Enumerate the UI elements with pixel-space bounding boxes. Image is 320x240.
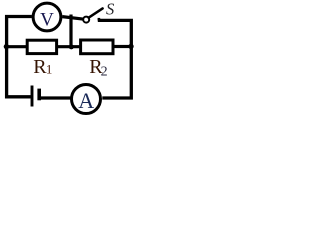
switch S lever <box>89 8 103 17</box>
voltmeter V circle <box>33 3 61 31</box>
wire: top-left + left side + bottom-left loop <box>7 17 32 97</box>
resistor R2 box <box>81 40 113 54</box>
svg-text:2: 2 <box>101 65 108 80</box>
svg-text:1: 1 <box>46 62 53 77</box>
node: junction dot right side <box>128 44 133 49</box>
node: junction dot left side <box>4 44 9 49</box>
battery cell long plate <box>31 86 34 107</box>
svg-text:A: A <box>78 88 94 113</box>
background <box>0 0 136 117</box>
battery cell short plate <box>37 89 41 101</box>
switch S pivot circle <box>83 17 89 23</box>
svg-text:V: V <box>40 10 54 31</box>
resistor R1 box <box>27 40 56 53</box>
wire: top-right + right side + bottom-right loop <box>98 20 132 98</box>
wire: top middle segment (voltmeter to switch pivot) <box>62 17 84 20</box>
wire: middle branch left segment <box>7 45 26 48</box>
ammeter circle <box>72 85 101 114</box>
wire: middle branch right segment <box>114 45 130 48</box>
svg-text:S: S <box>106 0 114 19</box>
node: junction dot between R1 and R2 <box>69 44 74 49</box>
wire: middle branch between R1 and R2 <box>58 45 79 48</box>
wire: vertical drop from top wire to middle branch <box>69 15 72 48</box>
switch right contact tick <box>98 18 101 21</box>
wire: battery to ammeter <box>41 96 71 99</box>
